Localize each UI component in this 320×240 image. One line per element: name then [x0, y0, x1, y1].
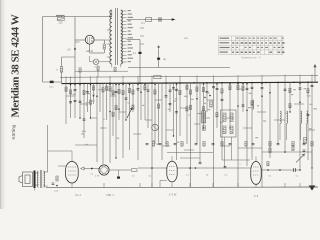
wire — [109, 16, 112, 18]
wire stage drop x=97 — [96, 83, 98, 162]
wire drop to bottom rail x=140 — [139, 183, 141, 188]
svg-text:Meridian 38 SE 4244 W: Meridian 38 SE 4244 W — [9, 14, 21, 117]
wire — [90, 52, 105, 54]
indicator circle — [152, 124, 159, 131]
wire into tube top — [71, 151, 73, 162]
transformer right tap 1 — [121, 10, 127, 12]
wire stage drop x=126 — [125, 83, 127, 120]
transformer right tap 14 — [121, 54, 127, 56]
wire rail tie x=123 — [122, 76, 124, 83]
wire into tube1 left — [58, 165, 66, 167]
wire smoothing drop — [139, 40, 141, 84]
wire stage drop x=312 — [311, 82, 313, 168]
resistors between rails — [79, 68, 81, 72]
resistor osc lower — [203, 126, 206, 131]
speaker field bar — [34, 171, 36, 189]
transformer right tap 10 — [121, 41, 127, 43]
grid cap arrow — [81, 167, 85, 170]
svg-text:220: 220 — [59, 22, 64, 25]
rectifier tube AZ11 — [85, 35, 94, 44]
wire stage drop x=247 — [246, 83, 248, 166]
wire osc tick2 — [206, 117, 210, 119]
wire drop to bottom rail x=285 — [284, 183, 286, 188]
wire stage drop x=106.5 — [106, 83, 108, 120]
bottom rail — [46, 186, 318, 189]
transformer right tap 16 — [121, 61, 127, 63]
wire stage drop x=190.5 — [190, 83, 192, 187]
wire lamp to winding — [99, 61, 109, 63]
wire stage drop x=252 — [251, 83, 253, 160]
wire mains line top — [43, 16, 113, 18]
voltage table — [219, 36, 284, 55]
wire selector link — [62, 56, 76, 58]
earth arrow bottom right — [311, 168, 313, 186]
tube C8 — [251, 162, 261, 185]
wire drop to bottom rail x=238 — [237, 183, 239, 188]
node mains junction — [74, 48, 76, 50]
wire voltage selector drop — [61, 57, 63, 67]
wire stage drop x=173.5 — [173, 83, 175, 136]
wire rail tie x=66 — [65, 76, 67, 83]
wire rail tie x=97 — [96, 76, 98, 83]
node junction — [91, 168, 93, 170]
node osc2 — [204, 97, 205, 98]
output transformer — [37, 171, 38, 187]
wire stage drop x=70.5 — [70, 84, 72, 118]
potentiometer arrow — [127, 108, 132, 118]
wire rail tie x=300 — [299, 75, 301, 83]
wire stub — [75, 41, 80, 43]
wire drop to bottom rail x=72 — [71, 183, 73, 188]
wire stage drop x=290 — [289, 82, 291, 112]
wire tube2 to tube3 — [122, 169, 131, 171]
wire — [103, 40, 105, 44]
svg-text:C 8: C 8 — [254, 194, 259, 198]
polarized capacitor on B+ line — [159, 17, 161, 21]
wire B+ line — [127, 19, 175, 21]
resistor bottom right — [269, 148, 271, 153]
tube C4W — [167, 161, 177, 182]
loudspeaker — [19, 172, 33, 187]
wire rail tie x=180 — [179, 76, 181, 83]
svg-text:CL 4: CL 4 — [75, 193, 81, 197]
wire stage drop x=152 — [151, 83, 153, 187]
wire stage drop x=84 — [83, 84, 85, 139]
pilot lamp — [93, 59, 99, 65]
wire — [111, 64, 113, 67]
node — [299, 169, 301, 171]
wire rail tie x=152 — [151, 76, 153, 83]
wire rail tie x=166 — [165, 76, 167, 83]
wire stage drop x=100 — [99, 83, 101, 112]
wire osc tick — [197, 113, 202, 115]
wire stage drop x=238 — [237, 83, 239, 187]
wire tube3 to tube4 — [177, 167, 251, 169]
box on AVC rail — [154, 76, 161, 79]
transformer right tap 11 — [121, 44, 127, 46]
mains switch — [50, 81, 54, 83]
arrowhead B+ — [172, 18, 176, 21]
wire stage drop x=66 — [65, 84, 67, 124]
tube CBL1 top view — [99, 165, 109, 175]
transformer right tap 5 — [121, 24, 127, 26]
wire stage drop x=119 — [118, 83, 120, 120]
wire tube4 right — [261, 169, 300, 171]
junction dots on main rail — [70, 82, 309, 85]
component row y145 — [146, 144, 149, 145]
wire stage drop x=80 — [79, 84, 81, 119]
wire OT primary feed — [47, 125, 49, 172]
wire stage drop x=285 — [284, 82, 286, 152]
wire stage drop x=155 — [154, 83, 156, 144]
transformer right tap 2 — [121, 13, 127, 15]
wire links bottom right — [262, 151, 312, 153]
tap stub — [140, 35, 144, 37]
resistor osc — [210, 101, 213, 107]
power transformer T1 — [110, 10, 112, 64]
wire stage drop x=270 — [269, 83, 271, 159]
wire stage drop x=138 — [137, 83, 139, 160]
wire stage drop x=217 — [216, 83, 218, 128]
wire rail tie x=80 — [79, 76, 81, 83]
wire stage drop x=75 — [74, 84, 76, 119]
wire rectifier cathode down — [89, 44, 91, 53]
transformer right tap 12 — [121, 47, 127, 49]
wire link left — [75, 144, 97, 146]
wire stage drop x=300 — [299, 82, 301, 170]
wire — [104, 39, 109, 41]
wire rectifier to winding — [94, 39, 104, 41]
wire stage drop x=203.5 — [203, 83, 205, 128]
node — [284, 151, 286, 153]
wire — [120, 64, 122, 67]
tuning arrow bottom right — [296, 154, 305, 163]
main thick rail — [62, 82, 319, 83]
wire stage drop x=141 — [140, 83, 142, 120]
wire — [90, 61, 94, 63]
rail heater short — [75, 70, 128, 72]
wire stage drop x=87.5 — [87, 84, 89, 113]
wire stage drop x=213.5 — [213, 83, 215, 187]
node osc — [209, 95, 211, 97]
transformer right tap 13 — [121, 51, 127, 53]
transformer right tap 3 — [121, 17, 127, 19]
transformer left tap y=57 — [107, 56, 110, 58]
wire stage drop x=133 — [132, 83, 134, 112]
wire stage drop x=200 — [199, 83, 201, 162]
wire stage drop x=145 — [144, 83, 146, 120]
wire stage drop x=170 — [169, 83, 171, 112]
svg-text:AZ 11: AZ 11 — [85, 49, 94, 53]
wire stage drop x=129.5 — [129, 83, 131, 150]
wire stage drop x=278 — [277, 82, 279, 144]
wire stage drop x=308 — [307, 82, 309, 160]
small components along bottom runs — [132, 169, 138, 172]
transformer left tap y=44 — [107, 43, 110, 45]
svg-text:Körting: Körting — [11, 124, 16, 139]
wire drop to bottom rail x=190 — [189, 183, 191, 188]
electrolytic capacitor — [139, 52, 142, 54]
wire stage drop x=93.5 — [93, 83, 95, 104]
wire links lower — [167, 152, 213, 154]
wire stage drop x=262 — [261, 83, 263, 188]
transformer right tap 15 — [121, 58, 127, 60]
electrolytic capacitor 4u — [157, 58, 160, 60]
wire rail tie x=262 — [261, 75, 263, 83]
wire mains drop right — [74, 17, 76, 83]
wire stage drop x=176.5 — [176, 83, 178, 160]
wire — [89, 56, 91, 62]
IF transformer 3 — [301, 111, 302, 124]
svg-text:C 4 W: C 4 W — [169, 193, 177, 197]
wire rail tie x=70.5 — [70, 76, 72, 83]
wire stage drop x=148 — [147, 83, 149, 128]
tap stub — [140, 43, 144, 45]
mains suppressor box — [57, 17, 64, 20]
wire stage drop x=187 — [186, 83, 188, 144]
IF transformer 1 — [221, 110, 237, 137]
antenna arrow top right — [314, 66, 316, 82]
wire drop to bottom rail x=256 — [255, 183, 257, 188]
capacitor block 0,1 — [146, 18, 152, 22]
wire stage drop x=243 — [242, 83, 244, 112]
wire link to output tube — [48, 150, 72, 152]
wire filter cap drop — [158, 50, 160, 67]
wire rail tie x=213.5 — [213, 75, 215, 83]
rail AVC — [60, 76, 318, 78]
resistor bottom right 2 — [292, 146, 294, 151]
output tube CL4 — [66, 162, 79, 184]
wire drop to bottom rail x=213 — [212, 183, 214, 188]
wire to rectifier anode — [75, 39, 85, 41]
oscillator coil — [253, 100, 254, 109]
svg-text:CBL 1: CBL 1 — [106, 193, 114, 197]
wire rail tie x=312 — [311, 75, 313, 83]
svg-text:Netz: Netz — [49, 85, 54, 88]
wire stage drop x=90.5 — [90, 83, 92, 118]
wire stage drop x=162 — [161, 83, 163, 160]
rail B+ upper — [128, 66, 230, 68]
transformer right tap 8 — [121, 34, 127, 36]
wire drop to bottom rail x=300 — [299, 183, 301, 188]
mains RF choke — [56, 15, 64, 16]
oscillator block coil (hatched) — [202, 111, 206, 123]
wire rail tie x=285 — [284, 75, 286, 83]
wire drop to bottom rail x=104 — [103, 183, 105, 188]
wire rail tie x=90.5 — [90, 76, 92, 83]
wire stage drop x=113 — [112, 83, 114, 136]
transformer right tap 9 — [121, 37, 127, 39]
wire stage drop x=180 — [179, 83, 181, 136]
tap stub — [140, 27, 144, 29]
capacitor at tube2 — [117, 177, 120, 179]
resistor surge — [103, 44, 105, 49]
small up arrow — [158, 46, 160, 51]
wire — [103, 49, 105, 53]
transformer right tap 4 — [121, 20, 127, 22]
wire stage drop x=222 — [221, 83, 223, 160]
wire drop to bottom rail x=172 — [171, 183, 173, 188]
wire rail tie x=197 — [196, 75, 198, 83]
svg-text:Gemessen mit — V: Gemessen mit — V — [241, 57, 261, 60]
transformer right tap 7 — [121, 30, 127, 32]
wire stage drop x=207 — [206, 83, 208, 112]
wire stage drop x=158.6 — [158, 83, 160, 144]
wire stage drop x=116 — [115, 83, 117, 158]
wire — [61, 72, 63, 83]
svg-text:Ω: Ω — [56, 69, 58, 72]
transformer right tap 6 — [121, 27, 127, 29]
wire stage drop x=103 — [102, 83, 104, 164]
wire stage drop x=197 — [196, 83, 198, 144]
wire tap to smoothing — [127, 39, 141, 41]
capacitor bottom right — [303, 150, 306, 151]
wire rail tie x=110 — [109, 76, 111, 83]
resistor under IFT3 — [304, 138, 307, 144]
wire stage drop x=166 — [165, 83, 167, 144]
wire mains to switch — [43, 81, 62, 83]
wire primary top — [111, 10, 113, 17]
wire stage drop x=123 — [122, 83, 124, 158]
transformer core line 2 — [116, 8, 118, 65]
wire stage drop x=230 — [229, 83, 231, 128]
wire mains drop left — [42, 17, 44, 82]
transformer left tap y=30 — [107, 29, 110, 31]
transformer core line 1 — [114, 8, 116, 65]
resistor dropper — [60, 67, 62, 73]
wire stage drop x=110 — [109, 83, 111, 163]
wire rail tie x=238 — [237, 75, 239, 82]
RC cluster at output tube — [56, 176, 58, 181]
wire drop to bottom rail x=152 — [151, 183, 153, 188]
wire rail tie x=138 — [137, 76, 139, 83]
IF transformer 2 — [280, 111, 281, 124]
